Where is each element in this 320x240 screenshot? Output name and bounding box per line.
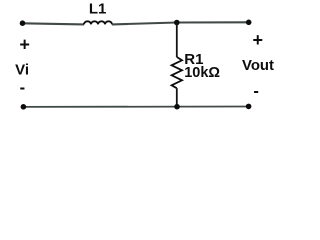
resistor R1	[172, 57, 182, 88]
node dot top junction	[174, 20, 180, 26]
node dot bottom-left	[21, 104, 27, 110]
node dot top-right	[246, 20, 252, 26]
svg-text:10kΩ: 10kΩ	[184, 65, 220, 81]
inductor L1	[84, 21, 112, 24]
svg-text:+: +	[253, 30, 264, 50]
wire bottom segment	[23, 106, 248, 108]
svg-text:Vi: Vi	[15, 61, 29, 78]
wire vertical lead upper	[176, 23, 178, 58]
wire top-middle segment	[112, 23, 177, 25]
svg-text:-: -	[20, 79, 26, 97]
node dot bottom-right	[246, 104, 252, 110]
svg-text:-: -	[253, 82, 259, 100]
svg-text:L1: L1	[89, 1, 107, 18]
node dot top-left	[20, 20, 26, 26]
node dot bottom junction	[174, 104, 180, 110]
wire top-right segment	[177, 21, 249, 23]
wire top-left segment	[23, 23, 85, 24]
svg-text:Vout: Vout	[242, 58, 274, 74]
wire vertical lead lower	[176, 88, 178, 107]
svg-text:+: +	[19, 35, 30, 55]
